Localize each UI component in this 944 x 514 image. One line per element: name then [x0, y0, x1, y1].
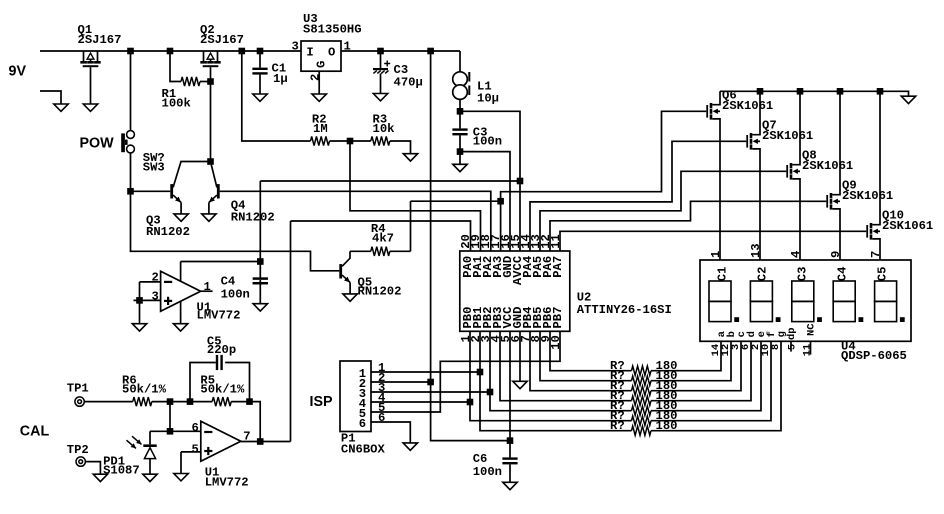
svg-text:6: 6: [359, 417, 366, 431]
svg-text:PB7: PB7: [551, 307, 565, 329]
svg-text:11: 11: [549, 234, 563, 249]
svg-text:SW3: SW3: [143, 161, 165, 175]
svg-text:I: I: [306, 46, 313, 60]
svg-text:LMV772: LMV772: [205, 476, 249, 490]
svg-text:10: 10: [549, 335, 563, 350]
svg-text:CN6BOX: CN6BOX: [341, 442, 386, 456]
svg-text:7: 7: [243, 430, 250, 444]
svg-text:9: 9: [829, 251, 843, 258]
svg-text:13: 13: [749, 243, 763, 258]
svg-text:C4: C4: [221, 275, 236, 289]
svg-text:S81350HG: S81350HG: [303, 23, 362, 37]
svg-text:11: 11: [802, 344, 814, 357]
svg-text:6: 6: [192, 421, 199, 435]
svg-text:NC: NC: [806, 323, 818, 336]
svg-text:RN1202: RN1202: [231, 211, 275, 225]
svg-text:470μ: 470μ: [394, 76, 423, 90]
svg-text:C5: C5: [875, 267, 889, 282]
svg-text:C1: C1: [715, 267, 729, 282]
svg-text:2SK1061: 2SK1061: [802, 159, 853, 173]
svg-text:100k: 100k: [162, 97, 191, 111]
svg-text:10k: 10k: [373, 122, 395, 136]
svg-text:5: 5: [787, 344, 799, 350]
svg-text:50k/1%: 50k/1%: [122, 382, 167, 396]
svg-text:2SJ167: 2SJ167: [200, 33, 244, 47]
svg-text:1M: 1M: [313, 122, 328, 136]
svg-text:RN1202: RN1202: [146, 225, 190, 239]
svg-text:3: 3: [292, 39, 299, 53]
svg-text:QDSP-6065: QDSP-6065: [841, 349, 907, 363]
svg-text:5: 5: [192, 443, 199, 457]
svg-text:O: O: [328, 46, 335, 60]
svg-text:LMV772: LMV772: [197, 309, 241, 323]
svg-text:100n: 100n: [221, 288, 250, 302]
svg-text:TP1: TP1: [67, 382, 89, 396]
svg-text:ISP: ISP: [310, 394, 334, 410]
svg-text:ATTINY26-16SI: ATTINY26-16SI: [577, 303, 672, 317]
svg-text:2SK1061: 2SK1061: [882, 219, 933, 233]
svg-text:1: 1: [709, 251, 723, 258]
svg-text:2: 2: [308, 74, 322, 81]
svg-text:4: 4: [789, 251, 803, 258]
svg-text:50k/1%: 50k/1%: [200, 382, 245, 396]
svg-text:2SK1061: 2SK1061: [722, 99, 773, 113]
svg-text:8: 8: [770, 344, 782, 350]
svg-text:220p: 220p: [207, 343, 236, 357]
svg-text:C6: C6: [473, 452, 488, 466]
svg-text:9V: 9V: [9, 64, 27, 80]
svg-text:10μ: 10μ: [477, 92, 499, 106]
svg-text:TP2: TP2: [67, 443, 89, 457]
svg-text:3: 3: [152, 290, 159, 304]
svg-text:CAL: CAL: [20, 424, 50, 440]
svg-text:100n: 100n: [473, 465, 502, 479]
svg-text:2SJ167: 2SJ167: [78, 33, 122, 47]
svg-text:C2: C2: [755, 267, 769, 282]
svg-text:4k7: 4k7: [372, 232, 394, 246]
svg-text:R?: R?: [610, 419, 625, 433]
svg-text:RN1202: RN1202: [358, 285, 402, 299]
svg-text:100n: 100n: [473, 135, 502, 149]
svg-text:1μ: 1μ: [273, 72, 288, 86]
svg-text:1: 1: [344, 39, 351, 53]
svg-text:2SK1061: 2SK1061: [762, 129, 813, 143]
svg-text:7: 7: [869, 251, 883, 258]
svg-text:S1087: S1087: [103, 464, 140, 478]
svg-text:2SK1061: 2SK1061: [842, 189, 893, 203]
svg-text:180: 180: [656, 419, 678, 433]
svg-text:G: G: [315, 61, 329, 68]
svg-text:6: 6: [378, 411, 385, 425]
svg-text:C3: C3: [795, 267, 809, 282]
svg-text:dp: dp: [786, 327, 798, 340]
svg-text:PA7: PA7: [551, 256, 565, 278]
svg-text:C4: C4: [835, 267, 849, 282]
svg-text:1: 1: [204, 280, 211, 294]
svg-text:POW: POW: [80, 136, 115, 152]
